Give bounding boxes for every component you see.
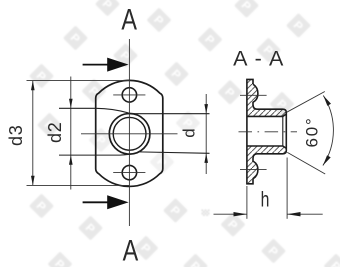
svg-text:60°: 60° [302,116,321,147]
svg-text:h: h [261,187,270,211]
svg-text:d3: d3 [6,124,26,146]
svg-text:d: d [179,128,198,137]
svg-text:A: A [121,3,137,36]
svg-text:A: A [123,234,139,267]
svg-text:d2: d2 [45,121,65,143]
svg-text:A - A: A - A [233,47,284,71]
